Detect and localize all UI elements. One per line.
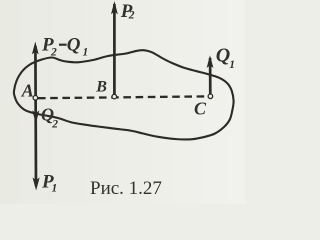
svg-text:2: 2 [50, 47, 57, 59]
svg-text:B: B [95, 79, 107, 96]
svg-text:1: 1 [83, 47, 89, 59]
svg-text:1: 1 [52, 183, 58, 195]
svg-text:Q: Q [216, 45, 230, 67]
svg-text:Рис. 1.27: Рис. 1.27 [90, 178, 162, 199]
svg-text:C: C [194, 99, 207, 119]
svg-text:2: 2 [51, 119, 58, 131]
svg-text:2: 2 [128, 10, 135, 22]
svg-text:1: 1 [229, 59, 235, 71]
svg-text:Q: Q [67, 35, 81, 56]
svg-text:A: A [21, 81, 34, 101]
